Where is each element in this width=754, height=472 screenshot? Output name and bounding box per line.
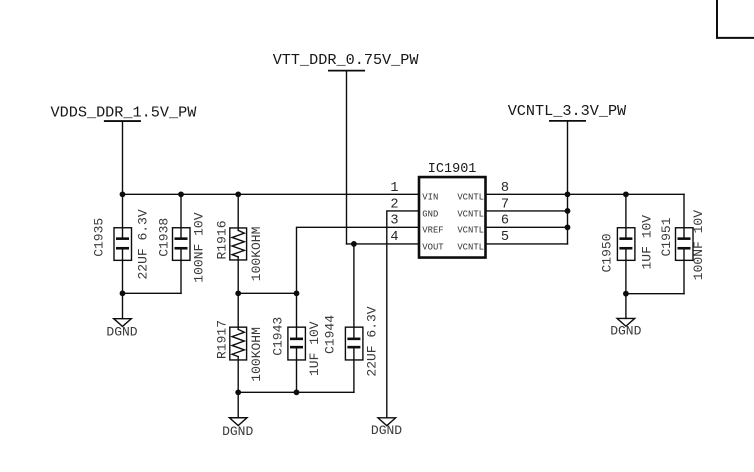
- svg-text:VCNTL: VCNTL: [457, 193, 484, 203]
- wire GND pin 2 to ground: [387, 211, 419, 418]
- node VDDS_DDR_1.5V_PW power bar: [105, 120, 140, 122]
- capacitor C1951: [676, 194, 694, 293]
- wire bottom bus: [238, 391, 354, 393]
- sheet border corner: [717, 0, 754, 38]
- wire VCNTL vertical pins 8-5: [567, 194, 569, 244]
- capacitor C1950: [617, 194, 635, 293]
- capacitor C1938: [173, 194, 191, 293]
- svg-text:DGND: DGND: [222, 424, 253, 439]
- capacitor C1943: [288, 293, 306, 392]
- svg-text:5: 5: [501, 230, 509, 245]
- node VCNTL_3.3V_PW power bar: [550, 120, 585, 122]
- svg-text:4: 4: [390, 230, 398, 245]
- wire mid ground drop: [237, 392, 239, 417]
- svg-text:VCNTL: VCNTL: [457, 209, 484, 219]
- node junction dots: [120, 191, 126, 197]
- resistor R1917: [230, 293, 247, 392]
- wire VTT vertical: [346, 71, 348, 244]
- svg-text:100KOHM: 100KOHM: [249, 227, 264, 282]
- svg-text:IC1901: IC1901: [428, 162, 477, 177]
- wire VDDS drop: [122, 121, 124, 194]
- wire pin 5 stub: [486, 243, 568, 245]
- wire VTT to VOUT pin 4: [347, 243, 420, 245]
- svg-text:DGND: DGND: [371, 423, 402, 438]
- svg-text:1: 1: [390, 181, 398, 196]
- svg-text:3: 3: [390, 214, 398, 229]
- svg-text:VCNTL: VCNTL: [457, 226, 484, 236]
- svg-text:R1916: R1916: [215, 220, 230, 259]
- svg-text:VTT_DDR_0.75V_PW: VTT_DDR_0.75V_PW: [273, 51, 420, 69]
- svg-text:7: 7: [501, 197, 509, 212]
- svg-text:2: 2: [390, 197, 398, 212]
- wire VREF pin 3 to divider node: [297, 227, 420, 293]
- svg-text:C1935: C1935: [92, 218, 107, 257]
- wire right bus pin 8 to C1951: [486, 193, 685, 195]
- svg-text:VDDS_DDR_1.5V_PW: VDDS_DDR_1.5V_PW: [51, 104, 198, 122]
- svg-text:8: 8: [501, 181, 509, 196]
- op-amp U1 IC1901 body: [419, 177, 486, 258]
- wire left ground drop: [122, 293, 124, 318]
- svg-text:1UF 10V: 1UF 10V: [639, 215, 654, 270]
- svg-text:C1943: C1943: [271, 317, 286, 356]
- svg-text:6: 6: [501, 214, 509, 229]
- svg-text:VCNTL: VCNTL: [457, 242, 484, 252]
- svg-text:1UF 10V: 1UF 10V: [307, 321, 322, 376]
- svg-text:VOUT: VOUT: [422, 242, 443, 252]
- wire left ground bus: [123, 292, 182, 294]
- capacitor C1944: [345, 244, 363, 392]
- svg-text:C1951: C1951: [659, 217, 674, 256]
- svg-text:GND: GND: [422, 209, 438, 219]
- ground DGND right: [617, 318, 635, 326]
- svg-text:DGND: DGND: [610, 323, 641, 338]
- svg-text:C1950: C1950: [600, 233, 615, 272]
- wire right ground drop: [625, 294, 627, 319]
- svg-text:C1944: C1944: [323, 315, 338, 354]
- capacitor C1935: [114, 194, 132, 293]
- svg-text:100NF 10V: 100NF 10V: [192, 212, 207, 282]
- ground DGND left: [114, 319, 132, 327]
- wire top bus VDDS_DDR to pin 1: [123, 193, 420, 195]
- wire pin 6 stub: [486, 226, 568, 228]
- svg-text:100KOHM: 100KOHM: [249, 327, 264, 382]
- ground DGND mid: [229, 418, 247, 426]
- resistor R1916: [230, 194, 247, 293]
- ground DGND for IC GND pin: [378, 418, 396, 426]
- svg-text:C1938: C1938: [156, 218, 171, 257]
- svg-text:100NF 10V: 100NF 10V: [691, 210, 706, 280]
- svg-text:VIN: VIN: [422, 193, 438, 203]
- wire VCNTL drop: [567, 121, 569, 195]
- wire mid bus VREF node: [238, 292, 296, 294]
- svg-text:R1917: R1917: [215, 320, 230, 359]
- wire right ground bus: [626, 293, 684, 295]
- svg-text:VREF: VREF: [422, 226, 443, 236]
- svg-text:VCNTL_3.3V_PW: VCNTL_3.3V_PW: [508, 102, 627, 120]
- node VTT_DDR_0.75V_PW power bar: [329, 70, 364, 72]
- svg-text:DGND: DGND: [106, 325, 137, 340]
- svg-text:22UF 6.3V: 22UF 6.3V: [364, 306, 379, 376]
- svg-text:22UF 6.3V: 22UF 6.3V: [136, 209, 151, 279]
- wire pin 7 stub: [486, 210, 568, 212]
